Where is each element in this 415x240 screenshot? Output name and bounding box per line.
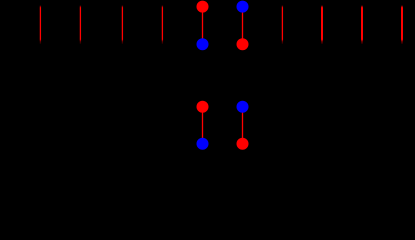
- bond 1 (top row, leftmost red vertical bond): [40, 5, 41, 44]
- site A2-top (red dot): [197, 101, 209, 113]
- dimer bond B2 (bottom row, right centre column wire): [242, 107, 243, 144]
- dimer bond B1 (top row, right centre column wire): [242, 6, 243, 44]
- dimer bond A2 (bottom row, left centre column wire): [202, 107, 203, 144]
- site A1-bottom (blue dot): [197, 38, 209, 50]
- site A1-top (red dot): [197, 1, 209, 13]
- bond 9: [361, 5, 363, 44]
- dimer bond A1 (top row, left centre column wire): [202, 6, 203, 44]
- bond 10 (top row, rightmost): [401, 5, 403, 44]
- bond 7 (right of centre dimers): [282, 5, 283, 44]
- site A2-bottom (blue dot): [197, 138, 209, 150]
- site B1-bottom (red dot): [237, 38, 249, 50]
- site B2-bottom (red dot): [237, 138, 249, 150]
- bond 3: [122, 5, 123, 44]
- bond 2: [80, 5, 81, 44]
- site B1-top (blue dot): [237, 1, 249, 13]
- bond 8: [321, 5, 323, 44]
- site B2-top (blue dot): [237, 101, 249, 113]
- bond 4: [162, 5, 163, 44]
